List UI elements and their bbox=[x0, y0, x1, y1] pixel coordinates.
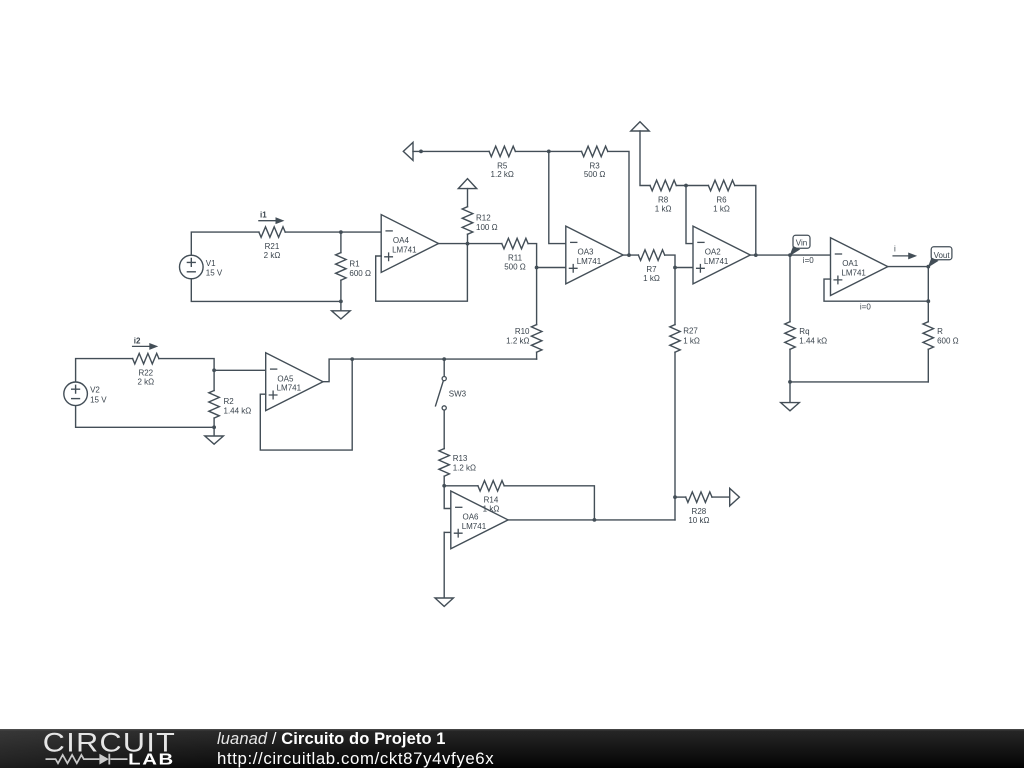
svg-text:LM741: LM741 bbox=[841, 269, 866, 278]
svg-text:V2: V2 bbox=[90, 386, 100, 395]
wire bbox=[735, 186, 756, 256]
node bbox=[593, 518, 597, 522]
node bbox=[339, 230, 343, 234]
wire bbox=[528, 244, 537, 325]
wire bbox=[674, 352, 676, 520]
wire bbox=[549, 151, 566, 243]
ground bbox=[789, 382, 791, 403]
wire bbox=[191, 279, 341, 302]
node Vin bbox=[788, 253, 792, 257]
svg-text:15 V: 15 V bbox=[90, 395, 107, 404]
resistor R12 bbox=[462, 207, 473, 235]
wire bbox=[504, 486, 594, 520]
svg-text:1 kΩ: 1 kΩ bbox=[483, 505, 500, 514]
svg-text:600 Ω: 600 Ω bbox=[349, 269, 371, 278]
resistor R1 bbox=[336, 253, 347, 281]
node bbox=[442, 484, 446, 488]
current arrow i bbox=[893, 255, 912, 257]
svg-text:1 kΩ: 1 kΩ bbox=[683, 336, 700, 345]
wire bbox=[515, 150, 581, 152]
svg-text:10 kΩ: 10 kΩ bbox=[688, 516, 709, 525]
svg-text:OA6: OA6 bbox=[463, 513, 480, 522]
wire bbox=[665, 255, 675, 325]
wire bbox=[686, 186, 693, 244]
ground flag up bbox=[631, 122, 649, 131]
voltage source V2 bbox=[64, 382, 88, 406]
resistor R13 bbox=[439, 449, 450, 477]
op-amp OA1 bbox=[831, 238, 888, 296]
svg-text:V1: V1 bbox=[206, 259, 216, 268]
svg-text:R: R bbox=[937, 327, 943, 336]
svg-text:1.2 kΩ: 1.2 kΩ bbox=[453, 464, 476, 473]
svg-text:15 V: 15 V bbox=[206, 269, 223, 278]
svg-text:2 kΩ: 2 kΩ bbox=[264, 251, 281, 260]
resistor R22 bbox=[133, 353, 159, 364]
svg-text:500 Ω: 500 Ω bbox=[504, 262, 526, 271]
ground flag left bbox=[403, 142, 413, 160]
wire bbox=[323, 359, 537, 382]
node bbox=[788, 380, 792, 384]
node bbox=[754, 253, 758, 257]
voltage source V1 bbox=[180, 255, 204, 279]
svg-text:R3: R3 bbox=[589, 161, 600, 170]
svg-text:R2: R2 bbox=[224, 397, 235, 406]
svg-text:R6: R6 bbox=[716, 195, 727, 204]
svg-text:i=0: i=0 bbox=[803, 256, 814, 265]
wire bbox=[712, 496, 730, 498]
svg-text:R10: R10 bbox=[515, 327, 530, 336]
wire bbox=[467, 189, 469, 207]
wire bbox=[214, 369, 266, 371]
svg-text:1.44 kΩ: 1.44 kΩ bbox=[224, 406, 252, 415]
resistor R2 bbox=[209, 391, 220, 419]
switch SW3 bbox=[443, 359, 445, 376]
resistor R14 bbox=[478, 481, 504, 492]
ground bbox=[340, 301, 342, 310]
current arrow i2 bbox=[133, 345, 153, 347]
op-amp OA6 bbox=[451, 491, 508, 549]
resistor R11 bbox=[502, 238, 528, 249]
wire bbox=[467, 234, 469, 243]
resistor R bbox=[923, 322, 934, 350]
svg-text:R12: R12 bbox=[476, 214, 491, 223]
wire bbox=[675, 267, 693, 269]
svg-text:i2: i2 bbox=[134, 337, 141, 346]
wire bbox=[376, 244, 468, 302]
svg-text:R5: R5 bbox=[497, 161, 508, 170]
node bbox=[339, 300, 343, 304]
wire bbox=[927, 349, 929, 382]
ground flag up bbox=[458, 179, 476, 189]
node bbox=[547, 150, 551, 154]
svg-text:LM741: LM741 bbox=[392, 246, 417, 255]
node bbox=[535, 266, 539, 270]
svg-text:R13: R13 bbox=[453, 454, 468, 463]
svg-text:1.44 kΩ: 1.44 kΩ bbox=[799, 336, 827, 345]
wire bbox=[608, 151, 629, 255]
node bbox=[673, 495, 677, 499]
svg-text:R7: R7 bbox=[646, 265, 657, 274]
flag Vin bbox=[793, 235, 810, 248]
svg-text:LM741: LM741 bbox=[704, 257, 729, 266]
wire bbox=[443, 476, 445, 486]
wire bbox=[443, 410, 445, 448]
svg-text:R28: R28 bbox=[692, 507, 707, 516]
svg-text:SW3: SW3 bbox=[449, 390, 467, 399]
svg-text:i=0: i=0 bbox=[860, 303, 871, 312]
svg-text:1 kΩ: 1 kΩ bbox=[713, 204, 730, 213]
svg-text:Vout: Vout bbox=[934, 251, 951, 260]
wire bbox=[750, 254, 830, 256]
op-amp OA3 bbox=[566, 226, 623, 284]
svg-text:100 Ω: 100 Ω bbox=[476, 223, 498, 232]
op-amp OA4 bbox=[381, 215, 438, 273]
node bbox=[926, 299, 930, 303]
svg-text:1.2 kΩ: 1.2 kΩ bbox=[491, 170, 514, 179]
wire bbox=[413, 150, 489, 152]
wire bbox=[191, 232, 259, 255]
wire bbox=[640, 131, 650, 186]
svg-text:LM741: LM741 bbox=[277, 384, 302, 393]
resistor R7 bbox=[638, 250, 664, 261]
svg-text:R1: R1 bbox=[349, 259, 360, 268]
wire bbox=[790, 381, 928, 383]
wire bbox=[213, 418, 215, 427]
svg-text:Rq: Rq bbox=[799, 327, 809, 336]
node bbox=[212, 425, 216, 429]
resistor R10 bbox=[531, 325, 542, 353]
wire bbox=[260, 359, 352, 450]
wire bbox=[76, 359, 133, 382]
resistor R28 bbox=[686, 492, 712, 503]
wire bbox=[537, 267, 566, 269]
resistor R6 bbox=[708, 180, 734, 191]
wire bbox=[444, 486, 451, 509]
op-amp OA5 bbox=[266, 353, 323, 411]
flag Vout bbox=[931, 247, 952, 260]
wire bbox=[789, 255, 791, 322]
wire bbox=[536, 352, 538, 359]
wire bbox=[340, 232, 342, 253]
svg-text:R14: R14 bbox=[484, 496, 499, 505]
svg-text:OA5: OA5 bbox=[277, 374, 294, 383]
node bbox=[466, 242, 470, 246]
svg-text:2 kΩ: 2 kΩ bbox=[137, 377, 154, 386]
wire bbox=[789, 349, 791, 382]
svg-text:600 Ω: 600 Ω bbox=[937, 336, 959, 345]
svg-text:R22: R22 bbox=[138, 369, 153, 378]
node bbox=[212, 368, 216, 372]
wire bbox=[285, 231, 381, 233]
svg-text:i: i bbox=[894, 244, 896, 253]
wire bbox=[675, 496, 686, 498]
wire bbox=[508, 519, 675, 521]
svg-text:i1: i1 bbox=[260, 211, 267, 220]
svg-text:R27: R27 bbox=[683, 326, 698, 335]
wire bbox=[623, 254, 638, 256]
svg-text:Vin: Vin bbox=[796, 239, 807, 248]
wire bbox=[444, 531, 451, 533]
svg-text:OA4: OA4 bbox=[393, 236, 410, 245]
svg-text:OA1: OA1 bbox=[842, 259, 859, 268]
node bbox=[442, 357, 446, 361]
node bbox=[419, 150, 423, 154]
svg-text:1 kΩ: 1 kΩ bbox=[655, 204, 672, 213]
wire bbox=[443, 532, 445, 598]
resistor R8 bbox=[650, 180, 676, 191]
svg-text:LM741: LM741 bbox=[577, 257, 602, 266]
wire bbox=[676, 185, 708, 187]
resistor R27 bbox=[670, 325, 680, 353]
svg-text:1 kΩ: 1 kΩ bbox=[643, 274, 660, 283]
svg-text:500 Ω: 500 Ω bbox=[584, 170, 606, 179]
wire bbox=[159, 359, 214, 391]
node bbox=[350, 357, 354, 361]
op-amp OA2 bbox=[693, 226, 750, 284]
svg-text:R11: R11 bbox=[508, 254, 523, 263]
resistor R21 bbox=[259, 227, 285, 238]
wire bbox=[888, 267, 929, 322]
resistor R5 bbox=[489, 146, 515, 157]
resistor R3 bbox=[582, 146, 608, 157]
ground bbox=[435, 598, 453, 606]
svg-text:OA2: OA2 bbox=[705, 248, 722, 257]
ground bbox=[213, 427, 215, 436]
node bbox=[673, 266, 677, 270]
resistor Rq bbox=[785, 322, 795, 350]
svg-text:R8: R8 bbox=[658, 195, 669, 204]
wire bbox=[439, 243, 502, 245]
wire bbox=[76, 406, 215, 427]
svg-text:LM741: LM741 bbox=[462, 522, 487, 531]
ground flag right bbox=[730, 488, 740, 506]
wire bbox=[340, 280, 342, 301]
svg-text:1.2 kΩ: 1.2 kΩ bbox=[506, 336, 529, 345]
svg-text:R21: R21 bbox=[265, 242, 280, 251]
node bbox=[684, 184, 688, 188]
svg-text:LAB: LAB bbox=[128, 751, 175, 768]
wire bbox=[444, 485, 478, 487]
svg-text:OA3: OA3 bbox=[578, 248, 595, 257]
node Vout bbox=[926, 265, 930, 269]
wire bbox=[824, 279, 928, 301]
node bbox=[627, 253, 631, 257]
current arrow i1 bbox=[259, 220, 279, 222]
